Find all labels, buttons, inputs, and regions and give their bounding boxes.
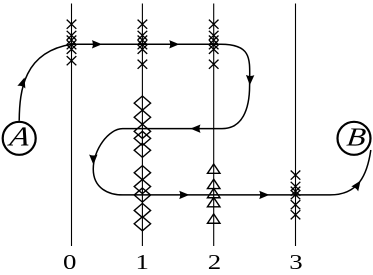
cross marks strand 2 top (209, 20, 219, 69)
node A circle (3, 122, 36, 155)
arrowhead B-curve (351, 178, 364, 191)
arrowhead left U down (89, 154, 97, 164)
wire path A to B (19, 44, 371, 195)
diamond marks strand 1 lower cluster (134, 166, 150, 231)
arrowhead top line 1 (92, 40, 102, 48)
strand 0 (71, 4, 73, 247)
cross marks strand 0 (67, 20, 77, 66)
svg-text:B: B (345, 124, 367, 152)
strand 2 (213, 4, 215, 247)
strand 1 (141, 4, 143, 247)
arrowhead top line 2 (169, 40, 179, 48)
svg-text:0: 0 (63, 251, 76, 275)
cross marks strand 1 top (138, 20, 148, 69)
triangle marks strand 2 lower cluster (207, 164, 220, 223)
node B circle (338, 122, 371, 155)
svg-text:2: 2 (208, 251, 221, 275)
svg-text:1: 1 (135, 251, 148, 275)
diamond marks strand 1 upper cluster (134, 96, 150, 157)
cross marks strand 3 (291, 171, 301, 220)
arrowhead on A-curve (17, 76, 28, 88)
strand 3 (295, 4, 297, 247)
arrowhead bottom line 1 (179, 191, 189, 199)
svg-text:3: 3 (289, 251, 302, 275)
arrowhead middle line left (190, 124, 200, 132)
arrowhead right stadium down (246, 75, 255, 85)
arrowhead bottom line 2 (259, 191, 269, 199)
